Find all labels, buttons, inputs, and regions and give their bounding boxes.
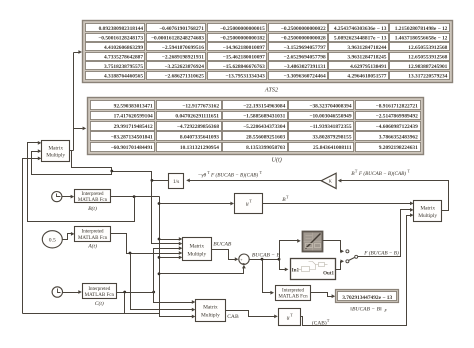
svg-text:−2.6529694057798: −2.6529694057798 [284, 55, 326, 61]
block MM1 Matrix Multiply (top left) [42, 141, 70, 162]
wire: A(t) output to BUCAB in4 and CAB in2 [111, 234, 196, 312]
svg-text:Multiply: Multiply [201, 312, 220, 318]
svg-text:4.2964618051577: 4.2964618051577 [347, 74, 386, 80]
svg-text:3.9631284718245: 3.9631284718245 [347, 55, 386, 61]
svg-text:Multiply: Multiply [187, 251, 206, 257]
svg-text:T: T [249, 198, 252, 203]
svg-text:−38.323704008394: −38.323704008394 [309, 103, 351, 109]
wire: Clock2 to C(t) [63, 290, 82, 294]
sum block (BUCAB - B) [239, 254, 249, 264]
svg-text:−3.3096360724464: −3.3096360724464 [284, 74, 326, 80]
wire: theta net vertical feeding ATS2 and U(t) displays [70, 50, 87, 150]
block B(t) Interpreted MATLAB Fcn [75, 190, 111, 203]
wire: switch output F(BUCAB-B) up to MM3 in2 [358, 208, 414, 257]
svg-text:12.983887245901: 12.983887245901 [408, 64, 447, 70]
svg-text:−22.193154963084: −22.193154963084 [243, 103, 285, 109]
svg-text:4.4102606863299: 4.4102606863299 [104, 45, 143, 51]
svg-text:4.7335278642887: 4.7335278642887 [104, 55, 143, 61]
svg-text:F (BUCAB − B)(CAB): F (BUCAB − B)(CAB) [210, 172, 258, 179]
svg-text:3.702913447492e − 13: 3.702913447492e − 13 [342, 295, 392, 301]
svg-text:0.047026291111651: 0.047026291111651 [175, 114, 219, 120]
svg-text:MATLAB Fcn: MATLAB Fcn [85, 293, 115, 298]
wire: B vertical trunk down to CAB in3 [158, 197, 196, 319]
block A(t) Interpreted MATLAB Fcn [75, 227, 111, 242]
wire: BUCAB output to sum [212, 250, 239, 262]
gain block (triangle, K) [321, 173, 336, 188]
svg-text:−2.686271310625: −2.686271310625 [164, 74, 204, 80]
svg-text:F: F [383, 308, 387, 313]
svg-text:−0.25000000000028: −0.25000000000028 [281, 36, 326, 42]
display U(t) (5x5 matrix display block) [88, 98, 424, 155]
wire: integrator output line and down to BUCAB in2 [151, 179, 183, 246]
svg-text:−1.5885689431031: −1.5885689431031 [243, 114, 285, 120]
svg-text:−0.00016128248274683: −0.00016128248274683 [151, 36, 204, 42]
svg-text:−83.287134501841: −83.287134501841 [111, 135, 153, 141]
block subsystem In1/Out1 [291, 259, 336, 280]
svg-text:(CAB): (CAB) [312, 320, 327, 327]
wire: C(t) output net, loop to MM1 in3, BUCAB in3, CAB in1 [23, 157, 196, 314]
svg-text:−10.003046550949: −10.003046550949 [309, 114, 351, 120]
svg-text:−13.79531334343: −13.79531334343 [225, 74, 265, 80]
block u^T transpose (top) [235, 194, 263, 214]
svg-text:U(t): U(t) [272, 157, 282, 164]
svg-text:12.650553912568: 12.650553912568 [408, 45, 447, 51]
clock Clock1 [52, 192, 62, 202]
display norm value [336, 290, 399, 303]
constant 0.5 [42, 231, 62, 248]
svg-text:−2.2689198921931: −2.2689198921931 [162, 55, 204, 61]
svg-text:3.7518238795575: 3.7518238795575 [104, 64, 143, 70]
wire: Clock1 to B(t) [62, 195, 75, 199]
svg-text:−12.9177673162: −12.9177673162 [182, 103, 219, 109]
svg-text:13.317220579234: 13.317220579234 [408, 74, 447, 80]
wire: gain output to integrator (right-to-left) [186, 179, 321, 183]
wire: subsystem output to manual switch input 2 [336, 259, 345, 269]
svg-text:Interpreted: Interpreted [82, 192, 104, 197]
wire: (CAB)^T to MM3 in3 [301, 213, 414, 325]
svg-text:−0.25000000000022: −0.25000000000022 [281, 26, 326, 32]
svg-text:1.4637180556658e − 12: 1.4637180556658e − 12 [395, 36, 448, 42]
svg-text:0.092380982318144: 0.092380982318144 [99, 26, 144, 32]
svg-text:A(t): A(t) [87, 243, 97, 250]
svg-text:−8.9161712822721: −8.9161712822721 [376, 103, 418, 109]
svg-text:−2.5147869989492: −2.5147869989492 [376, 114, 418, 120]
svg-text:−3.252623876924: −3.252623876924 [164, 64, 204, 70]
svg-text:CAB: CAB [227, 314, 239, 320]
block MM3 Matrix Multiply (right) [414, 201, 442, 222]
svg-text:8.0407335641093: 8.0407335641093 [180, 135, 219, 141]
manual switch [346, 250, 358, 263]
svg-text:28.556089251603: 28.556089251603 [246, 135, 285, 141]
svg-text:−5.2206434373304: −5.2206434373304 [243, 124, 285, 130]
svg-text:−3.4863027391131: −3.4863027391131 [284, 64, 326, 70]
svg-text:25.843641008111: 25.843641008111 [313, 145, 352, 151]
svg-text:B(t): B(t) [88, 205, 97, 212]
wire: dark block output to manual switch input 1 [323, 241, 345, 254]
svg-text:In1: In1 [292, 268, 300, 274]
svg-text:−11.939341872355: −11.939341872355 [310, 124, 352, 130]
wire: B into sum minus input (from below) [160, 265, 246, 274]
wire: B^T to MM3 in1 [263, 202, 414, 206]
svg-text:4.629795138491: 4.629795138491 [350, 64, 387, 70]
block dark matrix function (F) [303, 232, 323, 252]
svg-text:−15.628846676763: −15.628846676763 [223, 64, 265, 70]
svg-text:Multiply: Multiply [46, 153, 65, 159]
wire: B to u^T transpose block [160, 202, 235, 206]
block norm Interpreted MATLAB Fcn [276, 286, 311, 301]
svg-text:−0.40761901768271: −0.40761901768271 [159, 26, 204, 32]
svg-text:10.131321290954: 10.131321290954 [180, 145, 219, 151]
svg-text:−3.1529694057797: −3.1529694057797 [284, 45, 326, 51]
wire: B into BUCAB MM inputs 1 and 5 [160, 237, 183, 259]
block MM4 Matrix Multiply (CAB) [196, 300, 226, 322]
svg-text:4.2543746303636e − 13: 4.2543746303636e − 13 [334, 26, 387, 32]
svg-text:Interpreted: Interpreted [82, 230, 104, 235]
block MM2 Matrix Multiply (BUCAB, 5 inputs) [183, 238, 212, 261]
svg-text:Matrix: Matrix [203, 305, 218, 311]
display ATS2 (6x6 matrix display block) [83, 21, 453, 83]
wire: sum output BUCAB - B with branches [250, 239, 301, 295]
svg-text:u: u [246, 202, 249, 208]
svg-text:−γθ: −γθ [198, 173, 207, 179]
svg-text:Out1: Out1 [323, 271, 334, 276]
svg-text:92.590383013471: 92.590383013471 [114, 103, 153, 109]
svg-text:8.1353399058703: 8.1353399058703 [246, 145, 285, 151]
svg-text:u: u [287, 316, 290, 322]
svg-text:−60.901701484491: −60.901701484491 [111, 145, 153, 151]
wire: norm fcn to display [311, 293, 336, 299]
svg-text:1.2150280781498e − 12: 1.2150280781498e − 12 [395, 26, 448, 32]
svg-text:−15.462180010097: −15.462180010097 [223, 55, 265, 61]
svg-text:Interpreted: Interpreted [88, 287, 110, 292]
svg-text:C(t): C(t) [95, 300, 104, 307]
svg-text:T: T [290, 312, 293, 317]
label B^T F (BUCAB - B)(CAB)^T [351, 169, 410, 178]
svg-text:Interpreted: Interpreted [282, 288, 304, 293]
clock Clock2 [52, 287, 62, 297]
svg-text:MATLAB Fcn: MATLAB Fcn [78, 236, 108, 241]
wire: 0.5 to A(t) [63, 232, 75, 240]
svg-text:Matrix: Matrix [48, 145, 63, 151]
svg-text:Multiply: Multiply [418, 213, 437, 219]
svg-text:Matrix: Matrix [420, 206, 435, 212]
svg-text:12.650553912568: 12.650553912568 [408, 55, 447, 61]
label -gamma theta^T F (BUCAB - B)(CAB)^T [198, 170, 263, 179]
block integrator 1/s [169, 174, 184, 189]
wire: B(t) output net with feedback loop to MM1 input 1 [28, 141, 160, 222]
svg-text:4.3188764460565: 4.3188764460565 [104, 74, 143, 80]
wire: theta feedback to MM1 input 2 [32, 149, 112, 174]
label norm BUCAB-B frobenius [350, 306, 387, 313]
svg-text:33.802879298155: 33.802879298155 [312, 135, 351, 141]
svg-text:MATLAB Fcn: MATLAB Fcn [78, 198, 108, 203]
svg-text:BUCAB: BUCAB [213, 241, 232, 247]
svg-text:−14.962180010097: −14.962180010097 [223, 45, 265, 51]
svg-text:F (BUCAB − B)(CAB): F (BUCAB − B)(CAB) [358, 170, 406, 177]
svg-text:−0.50016128248173: −0.50016128248173 [98, 36, 143, 42]
svg-text:3.7866352483962: 3.7866352483962 [379, 135, 418, 141]
svg-text:−4.6060987122439: −4.6060987122439 [376, 124, 418, 130]
wire: MM1 output down-right path to integrator junction [72, 151, 152, 181]
svg-text:−0.25000000000182: −0.25000000000182 [220, 36, 265, 42]
svg-text:5.0892623448817e − 13: 5.0892623448817e − 13 [334, 36, 387, 42]
svg-text:1/s: 1/s [173, 179, 180, 185]
wire: CAB output to u^T bottom [226, 311, 278, 319]
svg-text:‖BUCAB − B‖: ‖BUCAB − B‖ [350, 306, 382, 312]
svg-text:MATLAB Fcn: MATLAB Fcn [278, 295, 308, 300]
svg-text:−2.5941870699516: −2.5941870699516 [162, 45, 204, 51]
svg-text:17.417620599104: 17.417620599104 [114, 114, 153, 120]
svg-text:29.991719485412: 29.991719485412 [114, 124, 153, 130]
wire: MM3 output up and left to gain [338, 179, 449, 211]
svg-text:3.9631284718244: 3.9631284718244 [347, 45, 386, 51]
svg-text:BUCAB − B: BUCAB − B [252, 252, 281, 258]
svg-text:Matrix: Matrix [189, 244, 204, 250]
svg-text:9.2092198224631: 9.2092198224631 [379, 145, 418, 151]
svg-text:F (BUCAB − B): F (BUCAB − B) [363, 249, 399, 256]
svg-text:0.5: 0.5 [49, 238, 56, 244]
block C(t) Interpreted MATLAB Fcn [83, 284, 117, 299]
block u^T transpose (bottom) [279, 309, 301, 326]
svg-text:ATS2: ATS2 [264, 87, 278, 94]
svg-text:−4.7292289856368: −4.7292289856368 [177, 124, 219, 130]
svg-text:−0.25000000000015: −0.25000000000015 [220, 26, 265, 32]
